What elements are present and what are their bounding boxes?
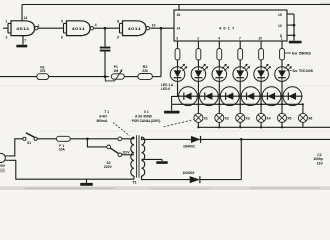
wire IC2 pin 16 to +V rail (177, 5, 181, 17)
svg-text:X5: X5 (287, 116, 291, 120)
wire P1 to R2 (124, 76, 138, 78)
wire bus to lamp X1 (197, 104, 199, 113)
node IC2 output pin 10 label (258, 37, 262, 41)
svg-text:6x 560Ω: 6x 560Ω (292, 52, 311, 56)
wire 220V contact to primary top (122, 137, 134, 139)
wire secondary centre tap (142, 159, 163, 161)
LED LED1 (170, 64, 187, 82)
wire R7 to LED5 (260, 60, 262, 67)
op-amp U1b NAND gate 4011 (pins 5,6 in, 4 out) (61, 19, 97, 39)
node label 6x TIC106 (290, 69, 314, 73)
node IC2 pin 14 label (177, 27, 181, 31)
wire LED6 cathode drop (281, 81, 283, 104)
svg-text:4 0 1 7: 4 0 1 7 (219, 26, 235, 31)
svg-text:4: 4 (95, 23, 97, 27)
node bus junction 6 (302, 103, 304, 105)
wire bus to lamp X3 (239, 104, 241, 113)
transformer T1 core (137, 135, 139, 177)
svg-text:2: 2 (6, 35, 8, 39)
wire U1b out to U1c in (94, 27, 120, 29)
svg-text:3: 3 (176, 37, 178, 41)
svg-text:7: 7 (239, 37, 241, 41)
svg-text:6: 6 (61, 35, 63, 39)
node label lamp rating (132, 110, 194, 127)
node lamp bus junction 3 (239, 126, 241, 128)
svg-text:4: 4 (218, 37, 220, 41)
wire LED2 cathode drop (197, 81, 199, 104)
wire IC2 pin 8 stub (287, 34, 294, 36)
svg-text:LED 6: LED 6 (161, 87, 170, 91)
wire SCR chain horizontal (178, 95, 303, 97)
switch S2 pole contact (107, 145, 111, 149)
wire U1c out to IC2 pin 14 (150, 27, 174, 29)
svg-text:10: 10 (152, 24, 156, 28)
resistor R6 560 (238, 49, 243, 61)
resistor R3 560 (175, 49, 180, 61)
wire C1 bottom lead (104, 52, 106, 77)
svg-text:4011: 4011 (72, 26, 86, 31)
lamp X6 (298, 113, 312, 122)
ground under U1a (16, 45, 27, 48)
svg-text:6+6V: 6+6V (99, 115, 108, 119)
wire bus to lamp X5 (281, 104, 283, 113)
wire IC2 pin 4 to R5 (218, 41, 220, 49)
node bus junction 3 (239, 103, 241, 105)
node label S2 220V (104, 161, 113, 169)
svg-text:110V: 110V (122, 151, 130, 155)
capacitor C1 (100, 47, 111, 52)
op-amp U1c NAND gate 4011 (pins 8,9 in, 10 out) (117, 19, 156, 39)
wire C1 top lead (104, 28, 106, 46)
svg-text:15: 15 (278, 13, 282, 17)
ground on AC return (80, 179, 93, 186)
svg-text:S1: S1 (27, 141, 31, 145)
wire lamp X5 to return bus (281, 122, 283, 127)
node label 6x 560 ohm (285, 52, 311, 56)
wire rectifier junction drop (240, 139, 242, 179)
resistor R2 22k (138, 65, 153, 79)
svg-text:X3: X3 (245, 116, 249, 120)
svg-text:A X6 400W: A X6 400W (135, 114, 153, 118)
node lamp bus junction 5 (281, 126, 283, 128)
node label LED 1 a LED 6 (161, 83, 174, 91)
wire selector pole (87, 139, 106, 147)
node timing junction C1/R1/P1 (104, 75, 107, 78)
node label T1 (132, 181, 136, 185)
svg-text:POR CANAL(220V): POR CANAL(220V) (132, 119, 161, 123)
svg-text:10: 10 (258, 37, 262, 41)
svg-text:14: 14 (24, 16, 28, 20)
resistor R8 560 (280, 49, 285, 61)
wire feedback vertical (160, 28, 162, 76)
wire R4 to LED2 (197, 60, 199, 67)
diode D2 1N4002 (183, 171, 200, 183)
node lamp bus junction 1 (197, 126, 199, 128)
thyristor SCR5 TIC106 (262, 87, 281, 106)
wire bus to lamp X6 (302, 104, 304, 113)
transformer T1 primary winding (131, 137, 134, 176)
switch S2 220V contact (118, 137, 122, 141)
op-amp U2 4017 counter IC body (174, 10, 287, 41)
LED LED5 (254, 64, 271, 82)
wire LED5 cathode drop (260, 81, 262, 104)
LED LED2 (191, 64, 208, 82)
node bus junction 1 (197, 103, 199, 105)
svg-text:5: 5 (61, 19, 63, 23)
svg-text:10A: 10A (59, 148, 66, 152)
svg-text:1N4002: 1N4002 (183, 171, 195, 175)
wire R5 to LED3 (218, 60, 220, 67)
node rectifier junction (240, 138, 243, 141)
switch S1 (23, 133, 37, 145)
svg-text:C2: C2 (317, 153, 321, 157)
AC source 220V plug (0, 153, 9, 167)
svg-text:X6: X6 (308, 116, 312, 120)
svg-text:220V: 220V (0, 164, 6, 168)
node IC2 output pin 7 label (239, 37, 241, 41)
lamp X5 (278, 113, 292, 122)
node selector junction (86, 137, 89, 140)
wire D2 to junction (200, 179, 241, 181)
resistor R5 560 (217, 49, 222, 61)
wire +V top supply rail (22, 4, 330, 6)
svg-text:9: 9 (117, 35, 119, 39)
wire bus to lamp X2 (218, 104, 220, 113)
wire R8 to LED6 (281, 60, 283, 67)
lamp X2 (215, 113, 229, 122)
svg-text:6x TIC106: 6x TIC106 (293, 69, 314, 73)
node bus junction 5 (281, 103, 283, 105)
resistor R4 560 (196, 49, 201, 61)
wire IC2 pin 1 to R8 (281, 41, 283, 49)
thyristor SCR6 TIC106 (283, 87, 302, 106)
LED LED4 (233, 64, 250, 82)
svg-text:T 1: T 1 (104, 110, 109, 114)
svg-text:4011: 4011 (16, 26, 30, 31)
wire IC2 pin 10 to R7 (260, 41, 262, 49)
wire U1a out to U1b in (38, 27, 64, 29)
wire cathode bus (172, 103, 303, 105)
wire LED4 cathode drop (239, 81, 241, 104)
node IC2 output pin 3 label (176, 37, 178, 41)
node IC2 pin 13 label (278, 24, 282, 28)
wire 110V contact to primary tap (122, 151, 134, 155)
svg-text:8: 8 (117, 19, 119, 23)
LED LED6 (275, 64, 292, 82)
wire IC2 pin 13 stub (287, 24, 294, 26)
svg-text:1M: 1M (113, 69, 118, 73)
wire lamp X6 to return bus (302, 122, 304, 127)
svg-text:T1: T1 (132, 181, 136, 185)
wire lamp return bus (198, 126, 330, 128)
wire reset/enable ground bus (293, 14, 296, 41)
fuse F1 10A (56, 136, 70, 151)
ground at IC2 right (289, 41, 302, 44)
potentiometer P1 1M (105, 65, 124, 81)
thyristor SCR3 TIC106 (220, 87, 239, 106)
wire LED3 cathode drop (218, 81, 220, 104)
svg-text:4011: 4011 (128, 26, 142, 31)
node IC2 output pin 1 label (281, 37, 283, 41)
resistor R7 560 (259, 49, 264, 61)
wire +V rectified rail (201, 138, 330, 140)
svg-text:1N4002: 1N4002 (183, 145, 195, 149)
node IC2 output pin 4 label (218, 37, 220, 41)
wire timing net left (0, 76, 37, 78)
svg-text:X2: X2 (225, 116, 229, 120)
transformer T1 secondary winding (142, 137, 145, 176)
resistor R1 47k (37, 65, 49, 79)
wire lamp X1 to return bus (197, 122, 199, 127)
wire secondary bottom to D2 (142, 176, 190, 180)
svg-text:22k: 22k (142, 69, 148, 73)
svg-text:1000µ: 1000µ (313, 157, 323, 161)
wire IC2 pin 15 stub (287, 13, 294, 15)
wire lamp X2 to return bus (218, 122, 220, 127)
svg-text:1: 1 (281, 37, 283, 41)
diode D1 1N4002 (183, 136, 201, 149)
node IC2 pin 8 label (280, 34, 282, 38)
node C1 top junction (104, 27, 107, 30)
wire R1 to P1 (49, 76, 109, 78)
capacitor C2 label (313, 153, 323, 166)
svg-text:7: 7 (24, 39, 26, 43)
node IC2 pin 15 label (278, 13, 282, 17)
op-amp U1a NAND gate 4011 (pins 1,2 in, 3 out) (3, 19, 40, 39)
wire S1 to F1 (37, 138, 56, 140)
wire R2 to feedback corner (152, 76, 161, 78)
node feedback junction (160, 27, 163, 30)
svg-text:X 1: X 1 (144, 110, 149, 114)
wire LED1 cathode drop (177, 81, 179, 96)
wire lamp X4 to return bus (260, 122, 262, 127)
svg-text:2: 2 (197, 37, 199, 41)
switch S2 blade (110, 148, 118, 153)
svg-text:47k: 47k (40, 69, 46, 73)
lamp X3 (236, 113, 250, 122)
wire IC2 pin 7 to R6 (239, 41, 241, 49)
svg-text:16: 16 (177, 13, 181, 17)
wire secondary top to D1 (142, 137, 192, 139)
svg-text:220V: 220V (104, 165, 113, 169)
svg-text:14: 14 (177, 27, 181, 31)
wire IC2 pin 3 to R3 (177, 41, 179, 49)
wire primary bottom to return (133, 176, 135, 179)
node lamp bus junction 4 (260, 126, 262, 128)
node IC2 output pin 2 label (197, 37, 199, 41)
wire U1a pin7 to ground (23, 36, 26, 45)
wire source to S1 (9, 139, 23, 156)
lamp X4 (257, 113, 271, 122)
svg-text:13: 13 (278, 24, 282, 28)
svg-text:3: 3 (38, 24, 40, 28)
wire R6 to LED4 (239, 60, 241, 67)
svg-text:16V: 16V (317, 162, 324, 166)
LED LED3 (212, 64, 229, 82)
node label T1 rating (97, 110, 130, 135)
node bus junction 4 (260, 103, 262, 105)
svg-text:1: 1 (6, 19, 8, 23)
node bus junction 2 (218, 103, 220, 105)
wire bus to lamp X4 (260, 104, 262, 113)
wire lamp X3 to return bus (239, 122, 241, 127)
thyristor SCR2 TIC106 (199, 87, 218, 106)
wire SCR chain left link (172, 96, 178, 104)
svg-text:600mA: 600mA (97, 119, 108, 123)
wire AC return rail (9, 160, 134, 179)
thyristor SCR4 TIC106 (241, 87, 260, 106)
svg-text:X4: X4 (266, 116, 270, 120)
wire R3 to LED1 (177, 60, 179, 67)
wire U1a pin 14 supply (22, 5, 27, 22)
svg-text:X1: X1 (204, 116, 208, 120)
node lamp bus junction 2 (218, 126, 220, 128)
wire F1 to selector (70, 138, 118, 140)
wire IC2 pin 2 to R4 (197, 41, 199, 49)
lamp X1 (194, 113, 208, 122)
thyristor SCR1 TIC106 (179, 87, 198, 106)
ground at SCR chain left (164, 104, 180, 113)
switch S2 110V contact (118, 153, 122, 157)
ground at centre tap (156, 161, 168, 164)
